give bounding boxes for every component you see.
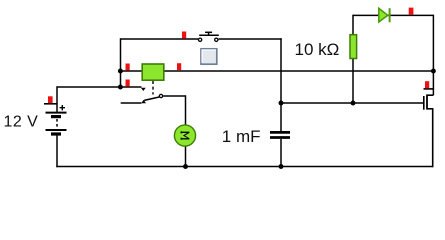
node dot right (433.4,71) <box>431 69 436 74</box>
wire bottom row y=167 <box>56 166 433 168</box>
switch SW1 lower contact triangle <box>141 100 146 103</box>
current marker top-row <box>182 32 186 39</box>
switch SW1 arm <box>144 97 159 100</box>
node dot1 (120.5,71) <box>118 69 123 74</box>
switch SW1 pivot <box>159 94 162 97</box>
wire mosfet drain x=433.4 <box>432 71 434 95</box>
current marker diode-row <box>409 8 414 15</box>
wire battery row y=87 <box>57 86 142 88</box>
transistor Q1 mosfet <box>424 94 434 109</box>
resistor R1 <box>350 35 357 59</box>
wire battery riser x=57 upper <box>56 86 58 112</box>
current marker mosfet drain <box>424 81 434 89</box>
motor M1 <box>174 125 195 146</box>
node dot cap-bottom (281,167) <box>279 164 284 169</box>
wire mosfet source x=433.5 <box>432 109 434 167</box>
relay coil L1 <box>142 64 164 80</box>
relay control dashed link <box>152 81 154 95</box>
diode D1 <box>379 8 390 22</box>
capacitor C1 <box>270 132 290 137</box>
svg-text:10 kΩ: 10 kΩ <box>295 40 340 59</box>
wire battery riser x=57 lower <box>56 134 58 167</box>
wire top row y=39 left segment <box>121 38 199 40</box>
wire right riser x=433.4 diode-to-coil-row <box>432 15 434 71</box>
wire capacitor riser x=281 lower <box>280 139 282 167</box>
wire resistor riser x=353 upper <box>352 15 354 35</box>
switch SW1 upper contact triangle <box>141 88 146 91</box>
wire motor riser x=185.5 upper <box>185 95 187 125</box>
node dot cap-gate (281,103) <box>279 101 284 106</box>
svg-text:1 mF: 1 mF <box>222 127 261 146</box>
push button pad <box>201 49 217 64</box>
wire resistor riser x=353 lower <box>352 58 354 103</box>
wire switch stub y=103 <box>121 102 142 104</box>
wire capacitor riser x=281 upper <box>280 38 282 131</box>
wire switch-to-motor y=96 <box>163 95 185 97</box>
current marker coil-right <box>177 63 181 70</box>
wire riser x=120.5 top-to-battery-row <box>120 38 122 87</box>
wire gate row y=103 <box>281 102 424 104</box>
current marker battery-row <box>126 80 130 87</box>
wire top row y=39 right segment <box>219 38 282 40</box>
current marker on battery wire <box>44 96 58 104</box>
push button S1 <box>198 32 218 41</box>
battery B1 12V <box>46 105 67 134</box>
node dot motor-bottom (185.5,167) <box>183 164 188 169</box>
current marker coil-row left <box>126 64 130 71</box>
wire diode row y=15 <box>353 14 433 16</box>
node dot resistor-gate (353,103) <box>351 101 356 106</box>
node dot2 (120.5,87) <box>118 85 123 90</box>
svg-text:12 V: 12 V <box>4 113 39 130</box>
wire coil row y=71 <box>121 70 434 72</box>
wire motor riser x=185.5 lower <box>185 146 187 167</box>
